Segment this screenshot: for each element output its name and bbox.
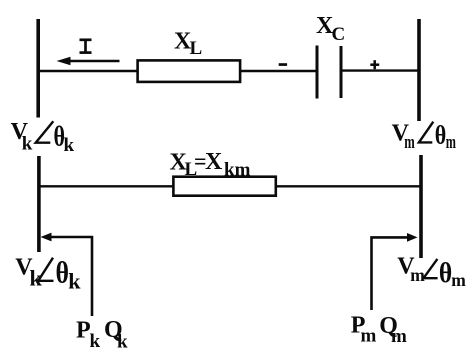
angle symbol (top left) [36,121,54,142]
label P_m Q_m [351,313,407,348]
label P_k Q_k [76,317,128,353]
svg-text:m: m [404,132,415,153]
svg-text:X: X [205,149,223,175]
wire: left bus to capacitor left plate [38,70,317,72]
svg-text:θ: θ [56,255,70,290]
svg-text:C: C [332,24,346,45]
svg-text:m: m [410,265,425,285]
angle symbol (bottom left) [38,258,53,281]
svg-text:k: k [64,135,75,156]
bus bar right (top circuit), node m [417,19,421,121]
wire: bottom line k to m [39,185,421,187]
svg-text:k: k [68,268,81,293]
angle symbol (top right) [419,122,433,143]
label X_L = X_km [170,149,251,181]
bus bar left (bottom circuit), node k [37,156,41,252]
svg-text:m: m [391,326,407,347]
bus bar right (bottom circuit), node m [419,155,423,258]
svg-text:P: P [76,317,91,343]
svg-text:k: k [90,331,101,352]
injection arrow at bus m (bent, pointing right into bus) [372,233,418,310]
svg-text:m: m [451,270,466,290]
capacitor X_C left plate [316,46,319,99]
svg-text:m: m [361,326,377,347]
svg-text:k: k [22,134,33,155]
label V_m angle theta_m (top right) [392,120,457,153]
svg-text:km: km [224,160,251,181]
label V_m angle theta_m (bottom right) [397,254,466,290]
capacitor X_C right plate [340,46,343,98]
current arrow I (pointing left) [57,57,120,65]
angle symbol (bottom right) [424,259,438,278]
label X_C [316,13,345,45]
svg-text:θ: θ [435,120,447,149]
plus polarity mark [370,60,379,69]
svg-text:k: k [117,332,128,353]
minus polarity mark [279,63,287,66]
bus bar left (top circuit), node k [36,19,40,118]
svg-text:L: L [190,38,203,59]
label V_k angle theta_k (bottom left) [15,254,81,293]
injection arrow at bus k (bent, pointing left into bus) [41,233,93,316]
label V_k angle theta_k (top left) [11,119,75,156]
reactor X_L (top box) [138,60,241,82]
label X_L (top) [174,29,202,60]
svg-text:m: m [446,132,456,153]
label I (typewriter capital I with serifs) [80,39,92,54]
wire: capacitor right plate to right bus [341,69,419,71]
reactor X_L = X_km (bottom box) [173,177,275,196]
